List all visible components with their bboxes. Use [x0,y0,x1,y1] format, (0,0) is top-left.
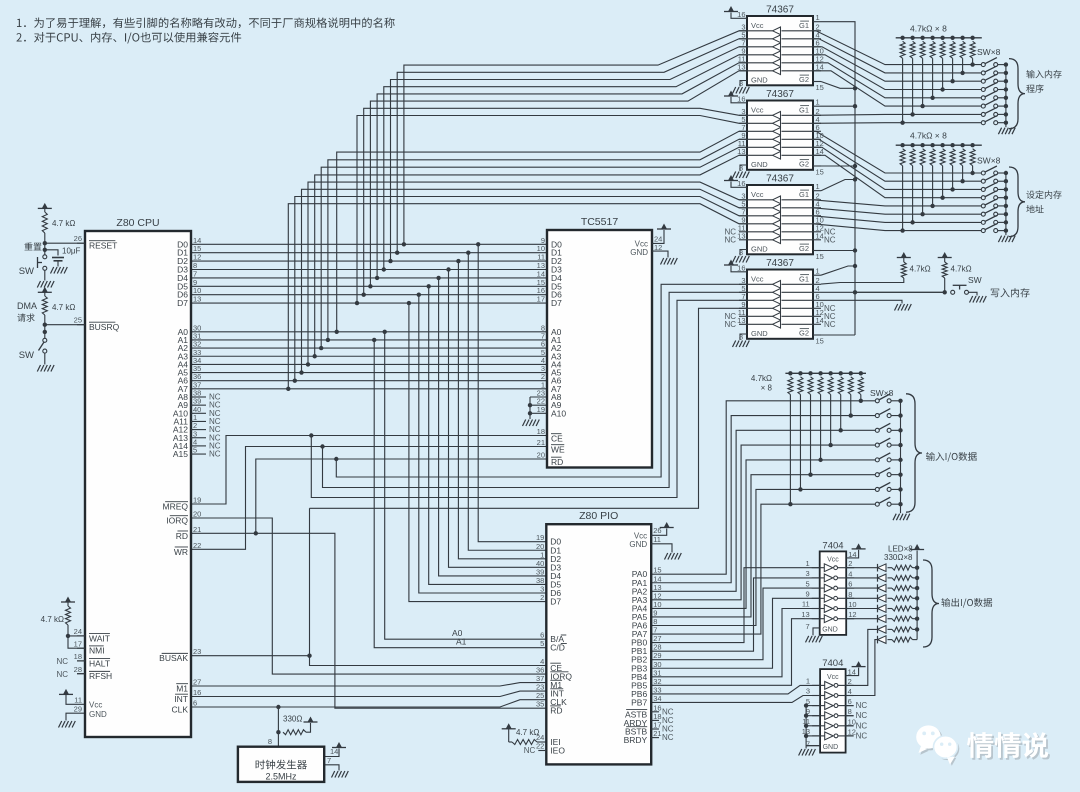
svg-text:CE: CE [551,434,563,444]
svg-text:MREQ: MREQ [163,502,189,512]
svg-text:GND: GND [822,626,838,633]
svg-text:GND: GND [823,744,839,751]
svg-text:4.7kΩ × 8: 4.7kΩ × 8 [910,23,947,33]
svg-text:BUSAK: BUSAK [159,653,188,663]
svg-text:15: 15 [816,83,824,92]
svg-text:34: 34 [653,694,661,703]
svg-text:NC: NC [856,701,868,710]
svg-text:14: 14 [816,147,824,156]
svg-text:RD: RD [550,706,562,716]
svg-text:17: 17 [74,639,82,648]
svg-text:16: 16 [737,10,745,19]
svg-text:A15: A15 [173,449,188,459]
svg-text:4.7kΩ × 8: 4.7kΩ × 8 [910,131,947,141]
svg-text:G2: G2 [799,329,809,338]
svg-text:20: 20 [537,451,545,460]
svg-text:13: 13 [801,610,809,619]
svg-text:13: 13 [737,316,745,325]
svg-text:4: 4 [848,687,852,696]
svg-text:WR: WR [174,547,188,557]
svg-text:Vcc: Vcc [751,190,764,199]
svg-text:1: 1 [816,98,820,107]
svg-text:23: 23 [193,647,201,656]
svg-text:11: 11 [653,535,661,544]
svg-text:Vcc: Vcc [751,21,764,30]
svg-text:8: 8 [848,707,852,716]
svg-text:74367: 74367 [766,174,794,185]
svg-text:13: 13 [737,147,745,156]
svg-text:RD: RD [176,531,188,541]
svg-text:4.7kΩ: 4.7kΩ [951,265,972,274]
svg-text:13: 13 [802,727,810,736]
svg-text:74367: 74367 [766,89,794,100]
svg-text:16: 16 [737,95,745,104]
svg-text:D7: D7 [177,298,188,308]
svg-text:A1: A1 [456,637,467,647]
svg-text:NC: NC [56,670,68,679]
svg-text:7404: 7404 [822,541,843,552]
svg-text:16: 16 [737,264,745,273]
svg-text:14: 14 [816,231,824,240]
svg-text:5: 5 [540,639,544,648]
svg-text:9: 9 [806,707,810,716]
svg-text:11: 11 [74,695,82,704]
svg-text:24: 24 [74,627,82,636]
svg-text:3: 3 [806,687,810,696]
svg-text:7404: 7404 [822,658,843,669]
svg-text:8: 8 [848,590,852,599]
svg-text:Z80 PIO: Z80 PIO [579,510,618,522]
svg-text:74367: 74367 [766,258,794,269]
svg-text:IEO: IEO [550,746,565,756]
svg-text:4: 4 [848,569,852,578]
svg-text:NC: NC [724,320,736,329]
svg-text:Z80 CPU: Z80 CPU [116,217,159,229]
svg-text:6: 6 [848,697,852,706]
svg-text:4.7 kΩ: 4.7 kΩ [41,615,64,624]
svg-text:16: 16 [737,179,745,188]
svg-text:SW: SW [19,266,34,277]
svg-text:GND: GND [751,329,768,338]
svg-text:14: 14 [848,550,856,559]
svg-text:14: 14 [330,747,338,756]
svg-text:8: 8 [739,79,743,88]
svg-text:SW: SW [968,275,982,285]
svg-text:GND: GND [751,160,768,169]
svg-text:7: 7 [806,740,810,749]
svg-text:GND: GND [751,76,768,85]
svg-text:11: 11 [802,600,810,609]
svg-text:2: 2 [540,593,544,602]
svg-text:9: 9 [806,590,810,599]
svg-text:Vcc: Vcc [89,701,102,710]
svg-text:330Ω×8: 330Ω×8 [884,553,913,562]
svg-text:15: 15 [816,168,824,177]
svg-text:GND: GND [89,710,107,719]
svg-text:330Ω: 330Ω [283,715,302,724]
svg-text:CLK: CLK [171,705,188,715]
svg-text:21: 21 [653,729,661,738]
svg-text:NC: NC [662,733,674,742]
svg-text:1: 1 [806,559,810,568]
svg-text:4.7 kΩ: 4.7 kΩ [52,303,75,312]
svg-text:8: 8 [739,164,743,173]
svg-text:M1: M1 [176,684,188,694]
svg-text:5: 5 [806,697,810,706]
svg-text:7: 7 [653,626,657,635]
svg-text:PA7: PA7 [632,629,648,639]
svg-text:26: 26 [74,234,82,243]
svg-text:7: 7 [806,622,810,631]
svg-text:SW×8: SW×8 [870,388,894,398]
svg-text:27: 27 [193,678,201,687]
svg-text:1: 1 [816,182,820,191]
svg-text:NC: NC [856,721,868,730]
svg-text:8: 8 [739,248,743,257]
svg-text:5: 5 [193,446,197,455]
svg-text:DMA: DMA [17,301,37,311]
svg-text:NC: NC [856,711,868,720]
svg-text:4.7 kΩ: 4.7 kΩ [52,219,75,228]
svg-text:6: 6 [848,580,852,589]
svg-text:18: 18 [74,652,82,661]
svg-text:1: 1 [816,13,820,22]
svg-text:14: 14 [816,316,824,325]
svg-text:16: 16 [193,688,201,697]
svg-text:13: 13 [737,62,745,71]
svg-text:BRDY: BRDY [624,735,648,745]
svg-text:22: 22 [193,541,201,550]
svg-text:SW×8: SW×8 [977,47,1001,57]
svg-text:Vcc: Vcc [827,556,839,563]
svg-text:14: 14 [848,668,856,677]
svg-text:RFSH: RFSH [89,671,112,681]
svg-text:TC5517: TC5517 [581,216,619,228]
svg-text:G1: G1 [799,106,809,115]
svg-text:Vcc: Vcc [751,106,764,115]
svg-text:10: 10 [848,600,856,609]
svg-text:13: 13 [193,295,201,304]
svg-text:6: 6 [193,699,197,708]
svg-text:8: 8 [739,333,743,342]
svg-text:2: 2 [848,677,852,686]
svg-text:GND: GND [751,245,768,254]
svg-text:19: 19 [193,496,201,505]
svg-text:7: 7 [327,756,331,765]
svg-text:GND: GND [630,248,648,257]
svg-text:× 8: × 8 [761,384,773,393]
svg-text:RESET: RESET [89,241,117,251]
svg-text:28: 28 [74,665,82,674]
svg-text:BUSRQ: BUSRQ [89,322,120,332]
svg-text:12: 12 [848,610,856,619]
svg-text:10μF: 10μF [62,247,81,256]
svg-text:Vcc: Vcc [751,275,764,284]
svg-text:G1: G1 [799,275,809,284]
svg-text:15: 15 [816,252,824,261]
svg-text:G2: G2 [799,160,809,169]
svg-text:29: 29 [74,704,82,713]
svg-text:3: 3 [806,569,810,578]
svg-text:1: 1 [816,267,820,276]
svg-text:RD: RD [551,457,563,467]
svg-text:14: 14 [816,62,824,71]
svg-text:20: 20 [193,510,201,519]
svg-text:NC: NC [856,731,868,740]
svg-text:2.5MHz: 2.5MHz [265,772,297,782]
svg-text:G2: G2 [799,75,809,84]
svg-text:21: 21 [537,438,545,447]
svg-text:18: 18 [537,427,545,436]
svg-text:NC: NC [56,657,68,666]
svg-text:G1: G1 [799,21,809,30]
svg-text:G1: G1 [799,190,809,199]
svg-text:15: 15 [816,337,824,346]
svg-text:19: 19 [537,405,545,414]
svg-text:5: 5 [806,579,810,588]
svg-text:WE: WE [551,445,565,455]
svg-text:21: 21 [193,525,201,534]
svg-text:17: 17 [537,295,545,304]
svg-text:HALT: HALT [89,658,110,668]
svg-text:35: 35 [536,700,544,709]
svg-text:8: 8 [268,737,272,746]
svg-text:D7: D7 [551,298,562,308]
svg-text:22: 22 [536,742,544,751]
svg-text:74367: 74367 [766,5,794,16]
svg-text:NC: NC [824,235,836,244]
svg-text:1: 1 [806,677,810,686]
svg-text:13: 13 [737,231,745,240]
svg-text:NC: NC [724,235,736,244]
svg-text:2: 2 [848,559,852,568]
svg-text:IORQ: IORQ [166,516,188,526]
svg-text:A10: A10 [551,408,566,418]
svg-text:11: 11 [802,717,810,726]
svg-text:C/D: C/D [550,643,565,653]
svg-text:4.7kΩ: 4.7kΩ [751,374,772,383]
svg-text:Vcc: Vcc [827,674,839,681]
svg-text:INT: INT [174,694,188,704]
svg-text:D7: D7 [550,597,561,607]
svg-text:25: 25 [74,316,82,325]
svg-text:NC: NC [209,450,221,459]
svg-text:NC: NC [524,746,536,755]
svg-text:WAIT: WAIT [89,633,110,643]
svg-text:NC: NC [824,320,836,329]
svg-text:PB7: PB7 [631,697,647,707]
svg-text:4.7kΩ: 4.7kΩ [910,265,931,274]
svg-text:NMI: NMI [89,646,105,656]
svg-text:GND: GND [629,540,647,549]
svg-text:SW: SW [19,350,34,361]
svg-text:G2: G2 [799,244,809,253]
svg-text:SW×8: SW×8 [977,156,1001,166]
